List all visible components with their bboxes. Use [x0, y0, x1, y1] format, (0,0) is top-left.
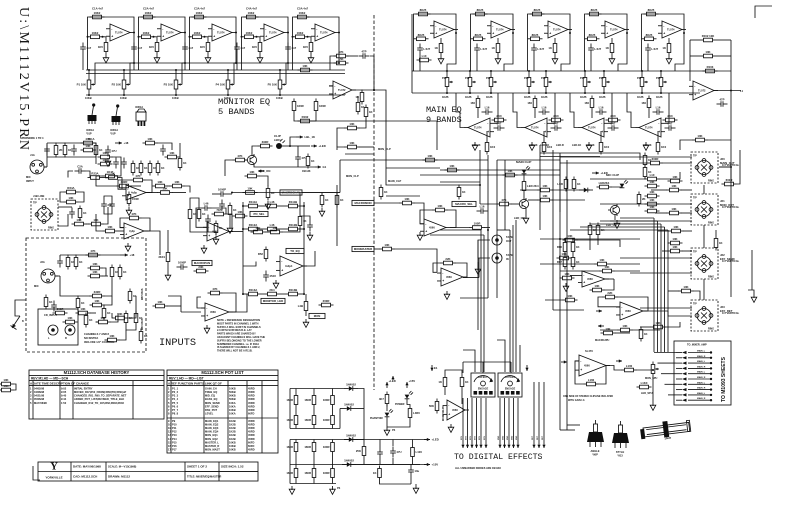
- resistor R88: [76, 307, 91, 315]
- svg-text:10KB: 10KB: [120, 96, 127, 100]
- svg-text:+: +: [125, 233, 127, 237]
- pot bottom wire: [279, 92, 281, 95]
- wire down right side: [730, 91, 732, 183]
- feedback loop wires: [347, 55, 358, 57]
- wire down to rail: [138, 37, 140, 70]
- output junction: [455, 32, 457, 34]
- wire: [112, 313, 113, 318]
- monitor slider pot VR5: [268, 77, 286, 92]
- ground: [614, 220, 620, 228]
- wire: [95, 143, 97, 164]
- svg-text:P18: P18: [656, 77, 661, 80]
- capacitor C14: [665, 122, 676, 131]
- ground: [586, 142, 592, 150]
- mesh wire: [552, 189, 590, 191]
- wire: [118, 230, 125, 232]
- svg-text:10K: 10K: [107, 225, 112, 229]
- wire riser: [339, 160, 341, 193]
- svg-text:GAIN_CH: GAIN_CH: [205, 386, 217, 390]
- off-page arrow: [11, 316, 21, 330]
- svg-text:SL47U: SL47U: [585, 349, 593, 353]
- svg-text:10K: 10K: [349, 141, 354, 145]
- svg-text:16K2: 16K2: [143, 31, 150, 35]
- svg-text:2K: 2K: [59, 148, 63, 152]
- vertical joiner: [358, 389, 364, 440]
- wire: [392, 440, 394, 447]
- svg-text:390R: 390R: [262, 140, 269, 144]
- svg-text:MON_EQ1: MON_EQ1: [205, 433, 218, 437]
- svg-text:10K: 10K: [622, 324, 627, 328]
- svg-text:10KB: 10KB: [229, 408, 236, 412]
- emitter wire: [254, 166, 315, 167]
- svg-text:TL074: TL074: [645, 126, 653, 130]
- svg-text:10KB: 10KB: [229, 444, 236, 448]
- bundle feed: [590, 223, 661, 225]
- feedback wires: [690, 55, 701, 57]
- LED D6 mic clip: [620, 180, 628, 188]
- svg-text:4560: 4560: [429, 226, 435, 230]
- wire to main clip: [313, 121, 438, 150]
- svg-text:10K: 10K: [255, 226, 260, 230]
- wire: [480, 203, 497, 205]
- wire: [313, 455, 315, 466]
- jack3-4 vertical: [703, 279, 705, 300]
- wire: [681, 189, 692, 191]
- svg-text:10K: 10K: [80, 307, 85, 311]
- junction monitor bus: [279, 94, 281, 96]
- svg-text:1K: 1K: [144, 166, 148, 170]
- junction main rail: [603, 70, 605, 72]
- junction monitor bus: [123, 94, 125, 96]
- wire: [13, 384, 16, 390]
- resistor R157: [563, 294, 578, 302]
- wire: [632, 329, 660, 331]
- pot bottom wire: [660, 90, 662, 94]
- svg-text:+: +: [213, 34, 215, 38]
- svg-text:10K: 10K: [76, 218, 81, 222]
- svg-text:L47: L47: [668, 122, 673, 126]
- title block column: [218, 462, 220, 481]
- rail ps2 top: [290, 439, 364, 441]
- junction: [307, 36, 309, 38]
- resistor R90: [113, 312, 128, 320]
- row wire: [280, 228, 286, 230]
- jack1 wire: [719, 166, 731, 168]
- svg-text:1K: 1K: [311, 159, 315, 163]
- wire main out: [719, 167, 731, 182]
- svg-text:BASS_EQ: BASS_EQ: [205, 397, 217, 401]
- svg-text:1K: 1K: [355, 95, 359, 99]
- wire: [96, 176, 117, 186]
- svg-text:1K: 1K: [111, 172, 115, 176]
- svg-text:P16: P16: [172, 444, 177, 448]
- svg-text:-: -: [316, 27, 317, 31]
- svg-text:160: 160: [527, 101, 532, 105]
- wire jack1 chain: [730, 167, 732, 182]
- svg-text:J1B LINE: J1B LINE: [33, 194, 45, 198]
- svg-text:LED_SPU: LED_SPU: [641, 392, 653, 395]
- capacitor C25: [177, 261, 188, 270]
- junction monitor bus: [227, 94, 229, 96]
- net arrow +15V: [405, 379, 415, 388]
- node MONMASTER: [352, 246, 374, 251]
- wire: [693, 291, 700, 300]
- ground: [552, 56, 558, 64]
- capacitor C8: [494, 122, 505, 131]
- wire: [374, 159, 420, 161]
- svg-text:10KA: 10KA: [229, 401, 236, 405]
- wire: [682, 250, 692, 252]
- resistor R8: [190, 31, 205, 39]
- junction: [572, 238, 574, 240]
- capacitor C9: [109, 200, 115, 211]
- svg-text:MACROCHAN: MACROCHAN: [282, 191, 301, 195]
- ground: [308, 55, 314, 63]
- svg-text:+48: +48: [124, 141, 129, 145]
- svg-text:DATE: MAY/06/1998: DATE: MAY/06/1998: [73, 465, 101, 469]
- wire: [295, 455, 297, 466]
- resistor R67: [64, 186, 79, 194]
- svg-text:4n7: 4n7: [291, 46, 296, 50]
- resistor R142: [460, 375, 468, 390]
- row wire: [301, 205, 305, 207]
- junction: [204, 36, 206, 38]
- svg-text:10K: 10K: [272, 226, 277, 230]
- wire: [339, 409, 341, 429]
- svg-text:1K2B: 1K2B: [656, 96, 663, 99]
- resistor R162: [156, 161, 164, 176]
- svg-text:10K: 10K: [599, 258, 604, 262]
- long vertical: [566, 160, 568, 430]
- svg-text:8K25: 8K25: [591, 8, 598, 12]
- junction main rail: [528, 70, 530, 72]
- resistor R152: [373, 466, 381, 481]
- svg-text:P13: P13: [524, 77, 529, 80]
- resistor R44 feedback: [208, 287, 223, 295]
- svg-text:+: +: [583, 281, 585, 285]
- wire stub: [257, 36, 261, 38]
- node MACRO_SEL: [452, 201, 476, 206]
- svg-text:1K: 1K: [577, 182, 581, 186]
- svg-text:LBL_1K: LBL_1K: [305, 135, 316, 139]
- output wire to wiper: [456, 93, 464, 128]
- resistor R144: [572, 177, 580, 192]
- jack4 feed: [640, 307, 692, 309]
- svg-text:20K: 20K: [198, 265, 203, 269]
- resistor R138: [622, 364, 637, 372]
- capacitor C17: [71, 145, 77, 156]
- wire: [299, 193, 301, 214]
- resistor R160: [618, 324, 633, 332]
- main EQ pot VR16: [602, 75, 610, 90]
- 1/4in jack J1B: [31, 199, 58, 230]
- svg-text:10KB: 10KB: [664, 436, 671, 441]
- ground: [204, 325, 210, 333]
- right vertical long: [730, 182, 732, 297]
- svg-text:L4U7: L4U7: [423, 47, 430, 51]
- resistor R98: [194, 265, 209, 273]
- corner bracket: [755, 6, 772, 18]
- main EQ pot VR14: [544, 75, 552, 90]
- svg-text:10K: 10K: [604, 265, 609, 269]
- net arrow LED_ON: [258, 169, 270, 173]
- wire: [444, 390, 446, 396]
- jack3 feed: [620, 257, 692, 259]
- wire: [86, 223, 89, 225]
- svg-text:P14: P14: [172, 437, 177, 441]
- wire: [379, 440, 381, 448]
- op-amp U7A mic pre: [122, 185, 150, 200]
- pot top wire: [175, 70, 177, 77]
- svg-text:45RD: 45RD: [248, 430, 255, 434]
- svg-text:P11: P11: [465, 77, 470, 80]
- wire: [157, 143, 172, 150]
- svg-text:P10: P10: [172, 422, 177, 426]
- pot top wire: [584, 71, 586, 75]
- switch feed: [519, 345, 521, 372]
- svg-text:MAIN_EQ3: MAIN_EQ3: [205, 426, 219, 430]
- ground: [257, 55, 263, 63]
- svg-text:L16: L16: [656, 106, 661, 110]
- bus to input: [344, 93, 346, 96]
- svg-text:10K: 10K: [605, 327, 610, 331]
- svg-text:1:52: 1:52: [61, 401, 67, 405]
- svg-text:10K: 10K: [697, 134, 702, 138]
- wire: [119, 330, 126, 340]
- svg-text:P15: P15: [172, 440, 177, 444]
- resistor R121: [557, 240, 567, 255]
- svg-text:10K: 10K: [349, 122, 354, 126]
- wire: [167, 185, 170, 187]
- capacitor C13: [653, 106, 664, 115]
- resistor R20: [416, 8, 431, 16]
- wire: [461, 390, 463, 405]
- resistor R79: [88, 262, 103, 270]
- wire: [659, 172, 680, 179]
- svg-text:*913: *913: [617, 453, 623, 457]
- svg-text:1K: 1K: [462, 190, 466, 194]
- cap to rail wire: [133, 54, 135, 71]
- wire: [477, 111, 479, 119]
- junction: [242, 293, 244, 295]
- input junction: [189, 36, 191, 38]
- resistor R94: [400, 197, 415, 205]
- wire: [310, 37, 312, 40]
- effects wire 7: [498, 398, 501, 448]
- svg-text:SND: SND: [507, 435, 509, 440]
- svg-text:45RD: 45RD: [248, 401, 255, 405]
- resistor R120: [595, 258, 610, 266]
- connector pin 3: [676, 362, 712, 365]
- ground: [303, 319, 309, 327]
- wire bundle to connector 2: [661, 373, 676, 375]
- svg-text:10K: 10K: [67, 316, 72, 320]
- jack2 feed 2: [610, 220, 692, 222]
- wire: [140, 329, 142, 331]
- main EQ pot VR10: [445, 75, 453, 90]
- resistor R102: [286, 200, 301, 208]
- svg-text:TL074: TL074: [474, 126, 482, 130]
- svg-text:10KB: 10KB: [229, 440, 236, 444]
- pot top wire: [490, 71, 492, 75]
- 1/4in jack J23 EFF RET: [691, 300, 733, 331]
- svg-text:-: -: [208, 225, 209, 229]
- jack2-3 vertical: [703, 225, 705, 248]
- table line: [29, 385, 164, 387]
- resistor R166: [153, 180, 168, 188]
- table column line: [261, 381, 263, 453]
- svg-text:8K25: 8K25: [418, 33, 425, 37]
- row wire: [243, 205, 246, 207]
- ground: [444, 291, 450, 299]
- svg-text:10K: 10K: [147, 137, 152, 141]
- resistor R177: [63, 316, 78, 324]
- svg-text:4560: 4560: [212, 230, 218, 234]
- resistor R153: [503, 169, 518, 177]
- wire: [440, 169, 560, 171]
- capacitor C37: [234, 43, 245, 54]
- feedback wire: [433, 263, 441, 272]
- effects wire 11: [516, 398, 519, 448]
- resistor R58: [131, 161, 139, 176]
- wire: [243, 262, 256, 267]
- ground power LED: [384, 427, 390, 435]
- resistor R40: [549, 114, 564, 122]
- svg-text:1N4002: 1N4002: [346, 433, 356, 437]
- resistor R161: [148, 161, 156, 176]
- row wire: [301, 293, 305, 295]
- power rail bottom: [290, 428, 340, 430]
- svg-text:P5_5: P5_5: [172, 401, 179, 405]
- junction monitor rail: [175, 69, 177, 71]
- resistor R126: [648, 157, 663, 165]
- bundle wire 5: [667, 230, 669, 352]
- wire to monitor out: [374, 90, 386, 150]
- svg-text:1K: 1K: [81, 301, 85, 305]
- resistor R7: [192, 11, 207, 19]
- wire: [167, 265, 169, 273]
- output wire: [463, 277, 479, 279]
- resistor R165: [178, 156, 186, 171]
- wire: [357, 96, 359, 100]
- svg-text:PO_SEL: PO_SEL: [253, 212, 264, 216]
- wire: [58, 214, 68, 226]
- bundle feed: [620, 217, 654, 219]
- resistor R78: [86, 249, 101, 257]
- svg-text:8K25: 8K25: [477, 8, 484, 12]
- svg-text:-: -: [621, 305, 622, 309]
- svg-text:1K: 1K: [271, 191, 275, 195]
- svg-text:1K2B: 1K2B: [442, 96, 449, 99]
- wire: [131, 185, 141, 187]
- capacitor C10: [551, 122, 562, 131]
- wire: [181, 311, 201, 313]
- svg-text:1K: 1K: [233, 208, 237, 212]
- svg-text:A REF FUNCTION PARTS LINK: A REF FUNCTION PARTS LINK QT OF: [168, 381, 222, 385]
- svg-text:4n7: 4n7: [240, 46, 245, 50]
- svg-text:+48: +48: [130, 253, 135, 257]
- table line: [29, 380, 164, 382]
- resistor R114: [497, 198, 512, 206]
- band output to rail: [447, 33, 456, 71]
- resistor R15: [303, 40, 313, 55]
- wire: [479, 185, 481, 204]
- resistor R26: [258, 140, 273, 148]
- resistor R10: [244, 11, 259, 19]
- svg-text:1000P: 1000P: [218, 188, 226, 192]
- pot bottom wire: [123, 92, 125, 95]
- connector pin 1: [676, 351, 712, 354]
- op-amp U2A: [157, 24, 185, 41]
- mesh wire: [577, 240, 620, 247]
- capacitor C31: [219, 200, 225, 211]
- svg-text:L46: L46: [204, 202, 209, 206]
- wire: [534, 111, 536, 119]
- node PO_SEL: [250, 211, 268, 216]
- resistor R183: [139, 329, 147, 344]
- svg-text:-: -: [125, 226, 126, 230]
- wire: [420, 159, 488, 161]
- wire: [336, 185, 338, 246]
- svg-text:1K2B: 1K2B: [599, 96, 606, 99]
- svg-text:1K: 1K: [340, 198, 344, 202]
- table line: [29, 374, 164, 376]
- wire: [321, 192, 323, 194]
- svg-text:160R: 160R: [304, 471, 311, 475]
- resistor R163: [143, 137, 158, 145]
- svg-text:C4A 4n7: C4A 4n7: [246, 7, 258, 11]
- svg-text:L160: L160: [588, 378, 595, 382]
- table pot list frame: [167, 370, 278, 453]
- wire: [313, 428, 315, 429]
- resistor R48: [701, 34, 716, 42]
- RCA jack J11 tape in: [492, 253, 502, 263]
- svg-text:R113B: R113B: [289, 288, 298, 292]
- svg-text:1K2B: 1K2B: [580, 96, 587, 99]
- main EQ pot VR13: [527, 75, 535, 90]
- feedback wire: [598, 297, 620, 307]
- svg-text:10K: 10K: [92, 262, 97, 266]
- svg-text:MIC: MIC: [34, 284, 39, 288]
- junction band output: [287, 62, 289, 64]
- resistor feedback: [433, 204, 448, 212]
- table line: [167, 380, 278, 382]
- op-amp U9A tape amp: [437, 268, 467, 286]
- capacitor C24: [57, 257, 63, 268]
- capacitor C3: [474, 44, 487, 55]
- row wire: [280, 205, 286, 207]
- svg-text:MACRO_SEL: MACRO_SEL: [455, 202, 473, 206]
- input junction: [138, 36, 140, 38]
- wire: [332, 389, 334, 393]
- resistor R26: [530, 8, 545, 16]
- wire: [482, 362, 484, 373]
- wire: [332, 455, 334, 466]
- mesh wire: [386, 195, 420, 197]
- resistor R105: [286, 223, 301, 231]
- resistor R137: [590, 284, 605, 292]
- feedback wire: [599, 366, 607, 385]
- svg-text:47U: 47U: [301, 156, 306, 160]
- svg-text:TIP: TIP: [33, 202, 37, 205]
- svg-text:+: +: [549, 31, 551, 35]
- wire: [104, 280, 112, 297]
- svg-text:LEV.1K: LEV.1K: [643, 144, 652, 147]
- svg-text:+: +: [265, 34, 267, 38]
- svg-text:SPKRMORE 1 TR 4: SPKRMORE 1 TR 4: [20, 136, 44, 140]
- svg-text:47K: 47K: [90, 249, 95, 253]
- svg-text:P9: P9: [172, 419, 176, 423]
